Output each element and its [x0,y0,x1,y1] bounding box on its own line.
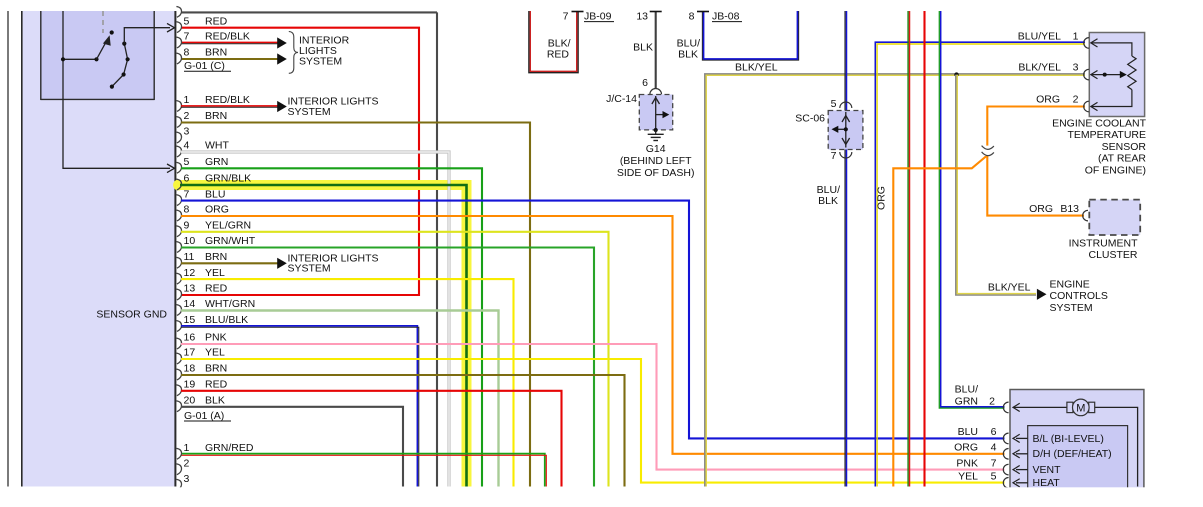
svg-text:7: 7 [831,150,837,162]
ECT pin 2 [1084,101,1089,112]
bottom connector pin 1 GRN/RED wire [181,454,545,487]
splice connector SC-06 [828,111,863,150]
heater pin 6 BLU [1003,433,1008,444]
svg-text:SIDE OF DASH): SIDE OF DASH) [617,167,695,179]
wire RED vertical [923,11,925,487]
wire pin6 GRN/BLK yellow highlight band [173,180,184,191]
connector G-01 (A) pin 6 arc and label [176,179,181,190]
svg-text:8: 8 [184,47,190,59]
heater pin 2 [1003,402,1008,413]
connector G-01 (A) pin 5 arc and label [176,162,181,173]
svg-text:ORG: ORG [876,186,888,210]
wire BLK/YEL main (to ECT pin3 and down) [705,74,1085,487]
svg-text:13: 13 [636,11,648,23]
svg-text:5: 5 [831,98,837,110]
svg-text:ORG: ORG [205,204,229,216]
svg-text:G14: G14 [646,143,666,155]
svg-text:PNK: PNK [205,332,227,344]
svg-text:BLK/YEL: BLK/YEL [1018,62,1061,74]
svg-text:ORG: ORG [1029,203,1053,215]
wire pin11 BRN to interior lights [181,262,278,264]
svg-text:WHT: WHT [205,140,229,152]
ignition switch inner box [41,11,155,100]
svg-text:3: 3 [184,473,190,485]
wire GRN/RED vertical [907,11,909,487]
svg-text:SENSOR GND: SENSOR GND [96,309,167,321]
bottom connector pin 3 [176,479,181,490]
wire pin5 GRN [181,168,482,486]
junction block JB-09 BLK/RED loop [529,11,578,73]
wire pin19 RED [181,391,562,487]
svg-text:BRN: BRN [205,363,227,375]
svg-text:5: 5 [184,156,190,168]
svg-text:VENT: VENT [1033,464,1062,476]
svg-text:1: 1 [1073,30,1079,42]
svg-text:RED: RED [547,48,570,60]
blower motor wire [1013,406,1067,408]
svg-text:7: 7 [563,11,569,23]
ECT pin 1 [1084,38,1089,49]
wire pin18 BRN [181,375,625,487]
svg-text:1: 1 [184,442,190,454]
connector G-01 (C) pin 5 RED wire to G-01(A) pin13 [181,28,419,295]
svg-text:YEL: YEL [205,267,225,279]
connector G-01 (A) pin 4 arc and label [176,146,181,157]
svg-text:6: 6 [991,426,997,438]
svg-text:D/H (DEF/HEAT): D/H (DEF/HEAT) [1033,448,1112,460]
svg-text:B/L (BI-LEVEL): B/L (BI-LEVEL) [1033,433,1104,445]
ignition switch assembly outer block [22,11,176,487]
svg-text:5: 5 [184,15,190,27]
svg-text:ENGINE: ENGINE [1050,279,1090,291]
wire BLU/YEL from ECT pin1 down [875,42,1085,486]
connector G-01 (A) pin 7 arc and label [176,195,181,206]
svg-text:BRN: BRN [205,251,227,263]
svg-text:TEMPERATURE: TEMPERATURE [1067,129,1146,141]
svg-text:BRN: BRN [205,47,227,59]
wire BLK vertical from G-01(C) pin4 down [436,12,438,486]
svg-text:(AT REAR: (AT REAR [1098,153,1146,165]
svg-text:RED/BLK: RED/BLK [205,94,250,106]
white crop mask at diagram bottom edge [0,487,1203,507]
wire BLU/BLK vertical through SC-06 [844,11,846,487]
wire pin1 RED/BLK to interior lights [181,105,278,107]
wire pin17 YEL to heater pin5 [181,359,1005,483]
wire pin15 BLU/BLK [181,326,417,487]
wire pin2 BRN [181,123,530,487]
svg-text:RED: RED [205,379,228,391]
svg-text:SYSTEM: SYSTEM [288,106,331,118]
svg-text:7: 7 [184,31,190,43]
connector G-01 (A) pin 15 arc and label [176,321,181,332]
svg-text:19: 19 [184,379,196,391]
svg-text:YEL: YEL [958,471,978,483]
svg-text:CONTROLS: CONTROLS [1050,290,1108,302]
connector G-01 (A) pin 8 arc and label [176,210,181,221]
svg-text:J/C-14: J/C-14 [606,93,637,105]
svg-text:BRN: BRN [205,110,227,122]
svg-text:3: 3 [1073,62,1079,74]
A/C-heater control inner box [1028,426,1128,494]
junction block JB-08 BLU/BLK loop [702,11,798,60]
svg-text:GRN/RED: GRN/RED [205,442,254,454]
connector G-01 (C) pin 8 BRN wire [181,58,278,60]
svg-text:2: 2 [184,458,190,470]
ECT pin 3 wiper [1084,69,1089,80]
svg-text:BLU: BLU [958,426,978,438]
heater pin 7 PNK [1003,464,1008,475]
svg-text:BLK: BLK [633,42,653,54]
svg-text:SYSTEM: SYSTEM [299,56,342,68]
svg-text:18: 18 [184,363,196,375]
switch wire to pin5 RED row (top group) [124,28,170,44]
svg-text:SYSTEM: SYSTEM [1050,302,1093,314]
connector G-01 (A) pin 16 arc and label [176,338,181,349]
svg-text:17: 17 [184,347,196,359]
wire pin8 ORG to heater pin4 [181,216,1005,454]
svg-text:YEL/GRN: YEL/GRN [205,220,251,232]
svg-text:4: 4 [991,442,997,454]
wire pin12 YEL [181,279,514,486]
connector G-01 (A) pin 9 arc and label [176,226,181,237]
wire: far-left gray vertical [7,11,9,487]
svg-text:BLK: BLK [678,48,698,60]
svg-text:3: 3 [184,126,190,138]
svg-text:WHT/GRN: WHT/GRN [205,298,255,310]
switch wire to pin5 GRN row [63,11,170,168]
bottom connector pin 2 [176,464,181,475]
connector G-01 (C) pin 7 RED/BLK wire [181,41,278,43]
svg-text:SYSTEM: SYSTEM [288,263,331,275]
svg-text:ORG: ORG [1036,94,1060,106]
svg-text:9: 9 [184,220,190,232]
svg-text:SENSOR: SENSOR [1102,141,1147,153]
svg-text:4: 4 [184,140,190,152]
switch rotary contact chain [112,44,128,87]
connector G-01 (A) pin 20 arc and label [176,401,181,412]
svg-text:20: 20 [184,395,196,407]
instrument cluster box [1089,200,1140,235]
svg-text:G-01 (A): G-01 (A) [184,410,224,422]
wire BLK/YEL branch to engine controls system [956,75,1036,295]
svg-text:(BEHIND LEFT: (BEHIND LEFT [620,155,692,167]
ECT thermistor resistor [1128,56,1136,90]
svg-text:1: 1 [184,94,190,106]
connector G-01 (A) pin 14 arc and label [176,305,181,316]
wire pin10 GRN/WHT [181,248,594,487]
svg-text:BLU/BLK: BLU/BLK [205,314,248,326]
svg-text:BLU: BLU [205,188,225,200]
connector G-01 (A) pin 17 arc and label [176,353,181,364]
A/C-heater control outer box [1010,390,1144,494]
svg-text:16: 16 [184,332,196,344]
svg-text:8: 8 [184,204,190,216]
switch common contact wire [63,58,97,60]
svg-text:PNK: PNK [956,457,978,469]
node: BLK/YEL splice dot [954,72,958,76]
svg-text:BLK: BLK [818,195,838,207]
connector G-01 (C) pin 4 gray wire [181,11,437,13]
engine coolant temperature sensor box [1089,33,1144,117]
connector G-01 (A) pin 18 arc and label [176,369,181,380]
svg-text:BLK/YEL: BLK/YEL [735,61,778,73]
connector G-01 (A) pin 19 arc and label [176,385,181,396]
svg-text:ENGINE COOLANT: ENGINE COOLANT [1052,118,1147,130]
svg-text:M: M [1076,402,1085,414]
svg-text:7: 7 [184,188,190,200]
svg-text:RED: RED [205,15,228,27]
wire BLU/GRN to heater pin2 [939,11,1004,408]
svg-text:SC-06: SC-06 [795,113,825,125]
svg-text:2: 2 [1073,94,1079,106]
svg-text:6: 6 [184,173,190,185]
connector G-01 (A) pin 11 arc and label [176,257,181,268]
svg-text:ORG: ORG [954,442,978,454]
wire pin4 WHT [181,152,449,487]
svg-text:YEL: YEL [205,347,225,359]
svg-text:12: 12 [184,267,196,279]
connector G-01 (A) pin 3 arc and label [176,132,181,143]
junction connector J/C-14 [639,95,672,130]
connector G-01 (A) pin 2 arc and label [176,117,181,128]
connector G-01 (A) pin 10 arc and label [176,242,181,253]
wire pin9 YEL/GRN [181,232,609,487]
svg-text:11: 11 [184,251,195,263]
wire pin7 BLU to heater pin6 [181,201,1005,439]
ground G14 [655,130,657,134]
svg-text:CLUSTER: CLUSTER [1088,249,1137,261]
svg-text:13: 13 [184,283,196,295]
svg-text:INSTRUMENT: INSTRUMENT [1069,238,1138,250]
svg-text:GRN/WHT: GRN/WHT [205,235,256,247]
connector G-01 (A) pin 13 arc and label [176,289,181,300]
svg-text:15: 15 [184,314,196,326]
switch mechanical linkage dashed line [102,11,104,33]
svg-text:14: 14 [184,298,196,310]
svg-text:BLK/YEL: BLK/YEL [988,282,1031,294]
svg-text:BLK: BLK [205,395,225,407]
wire pin16 PNK to heater pin7 [181,344,1005,470]
svg-text:BLU/: BLU/ [955,384,978,396]
wire BLK 13 to J/C-14 [655,11,657,89]
crossover hop marks on ORG wire [983,146,992,156]
svg-text:OF ENGINE): OF ENGINE) [1085,164,1146,176]
svg-text:G-01 (C): G-01 (C) [184,60,225,72]
wire pin6 GRN/BLK [180,185,467,487]
wire pin14 WHT/GRN [181,311,499,487]
wire ORG vertical with branches to ECT pin2 and cluster B13 [893,107,1085,487]
svg-text:JB-09: JB-09 [584,11,612,23]
svg-text:GRN: GRN [955,396,978,408]
svg-text:6: 6 [642,77,648,89]
svg-text:GRN: GRN [205,156,228,168]
svg-text:GRN/BLK: GRN/BLK [205,173,251,185]
heater pin 4 ORG [1003,449,1008,460]
svg-text:BLU/YEL: BLU/YEL [1018,30,1061,42]
svg-text:7: 7 [991,457,997,469]
svg-text:2: 2 [989,396,995,408]
svg-text:B13: B13 [1060,203,1079,215]
svg-text:5: 5 [991,471,997,483]
wire pin20 BLK [181,407,403,487]
connector G-01 (A) pin 1 arc and label [176,101,181,112]
heater pin 5 YEL [1003,478,1008,489]
svg-text:8: 8 [689,11,695,23]
switch movable contact arm [97,43,106,59]
brace for interior lights system [289,32,298,74]
svg-text:2: 2 [184,110,190,122]
connector G-01 (A) pin 12 arc and label [176,273,181,284]
svg-text:10: 10 [184,235,196,247]
svg-text:RED: RED [205,283,228,295]
svg-text:RED/BLK: RED/BLK [205,31,250,43]
blower motor symbol [1067,402,1073,412]
svg-text:JB-08: JB-08 [712,11,740,23]
